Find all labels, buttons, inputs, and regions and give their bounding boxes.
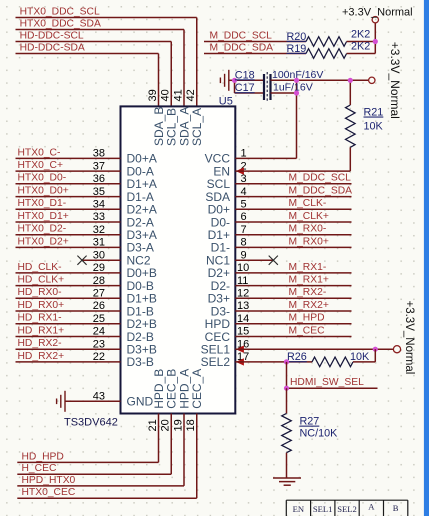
svg-text:R26: R26 <box>287 351 307 363</box>
svg-text:R21: R21 <box>364 107 384 119</box>
pin name D3-B <box>127 355 154 369</box>
net label HTX0_D0+ <box>18 186 69 197</box>
pin number 5 <box>241 199 247 211</box>
pin number 37 <box>93 160 105 172</box>
wire M_DDC_SDA pin 4 <box>235 196 351 198</box>
resistor R20 <box>287 29 376 47</box>
svg-text:GND: GND <box>127 395 154 409</box>
svg-text:NC/10K: NC/10K <box>300 428 339 440</box>
svg-text:HD_RX1-: HD_RX1- <box>18 313 62 324</box>
resistor R27 <box>282 388 338 453</box>
wire SEL2 pin 17 <box>235 361 286 363</box>
wire cap left C17 <box>235 80 265 93</box>
svg-text:M_DDC_SCL: M_DDC_SCL <box>289 173 352 184</box>
wire M_RX0+ pin 8 <box>235 246 351 248</box>
pin number 33 <box>93 211 105 223</box>
net label M_HPD <box>289 313 325 324</box>
wire HD_HPD to pin 21 <box>17 414 158 463</box>
op-amp U5 TS3DV642 chip body <box>121 106 236 413</box>
svg-text:HTX0_C+: HTX0_C+ <box>18 160 64 171</box>
wire caps to +3.3V rail <box>271 80 369 93</box>
pin number 15 <box>237 326 249 338</box>
net label HD-DDC-SCL <box>20 30 84 41</box>
net label HD_RX0- <box>18 287 62 298</box>
svg-text:19: 19 <box>172 419 184 431</box>
pin name SCL_B <box>165 108 179 146</box>
pin name SEL2 <box>201 355 231 369</box>
net label HD_RX1+ <box>18 325 65 336</box>
pin name D3+A <box>127 228 157 242</box>
net label HD_CLK- <box>18 262 62 273</box>
net label H_CEC <box>22 463 57 474</box>
svg-text:22: 22 <box>93 351 105 363</box>
svg-text:HTX0_D1-: HTX0_D1- <box>18 198 67 209</box>
pin name D2-B <box>127 330 154 344</box>
pin name SCL_A <box>190 108 204 146</box>
svg-text:HD_RX2-: HD_RX2- <box>18 338 62 349</box>
pin number 22 <box>93 351 105 363</box>
svg-text:10K: 10K <box>350 351 370 363</box>
power port +3.3V_Normal top <box>342 7 413 23</box>
pin number 39 <box>147 89 159 101</box>
window edge blue bar <box>424 0 429 516</box>
net label HD-DDC-SDA <box>20 42 85 53</box>
wire M_CEC pin 15 <box>235 336 351 338</box>
svg-text:HD-DDC-SDA: HD-DDC-SDA <box>20 42 85 53</box>
wire pin 43 to ground <box>65 400 121 402</box>
pin name EN <box>213 164 230 178</box>
wire M_RX1- pin 10 <box>235 272 351 274</box>
svg-text:HD_RX0-: HD_RX0- <box>18 287 62 298</box>
svg-text:U5: U5 <box>219 95 233 107</box>
pin name D2+B <box>127 317 157 331</box>
wire HTX0_D0+ to pin 35 <box>16 196 121 198</box>
net label M_CLK+ <box>289 211 329 222</box>
svg-text:M_RX2-: M_RX2- <box>289 287 327 298</box>
pin number 42 <box>185 89 197 101</box>
input arrow SEL1 pin 16 <box>236 346 244 353</box>
net label M_RX1- <box>289 262 327 273</box>
pin number 40 <box>160 89 172 101</box>
svg-text:SEL2: SEL2 <box>337 504 357 514</box>
svg-text:M_DDC_SDA: M_DDC_SDA <box>289 186 353 197</box>
svg-text:41: 41 <box>172 89 184 101</box>
wire HD_RX0+ to pin 26 <box>16 310 121 312</box>
junction SEL node <box>373 347 378 352</box>
vertical net name +3.3V_Normal right top <box>388 42 402 119</box>
resistor R19 <box>287 41 376 59</box>
svg-text:SEL2: SEL2 <box>201 355 231 369</box>
wire HTX0_D0- to pin 36 <box>16 183 121 185</box>
wire HTX0_DDC_SCL <box>16 18 197 107</box>
pin number 25 <box>93 313 105 325</box>
wire cap left C18 <box>235 79 265 81</box>
input arrow EN pin 2 <box>236 167 244 174</box>
svg-text:M_RX2+: M_RX2+ <box>289 300 329 311</box>
pin number 13 <box>237 300 249 312</box>
svg-text:38: 38 <box>93 148 105 160</box>
pin number 8 <box>241 237 247 249</box>
net label HDMI_SW_SEL <box>290 377 364 388</box>
pin name SEL1 <box>201 343 231 357</box>
wire M_CLK- pin 5 <box>235 208 351 210</box>
svg-text:A: A <box>368 502 375 512</box>
pin name SDA_B <box>152 107 166 146</box>
net label HTX0_C- <box>18 147 61 158</box>
wire VCC pin 1 to +3.3V rail <box>235 80 296 158</box>
value TS3DV642 <box>64 417 118 429</box>
pin name CEC_B <box>165 369 179 409</box>
net label HTX0_D2- <box>18 224 67 235</box>
wire HTX0_C+ to pin 37 <box>16 170 121 172</box>
pin number 3 <box>241 173 247 185</box>
net label M_RX2+ <box>289 300 329 311</box>
net label HTX0_CEC <box>22 487 76 498</box>
svg-text:HTX0_DDC_SCL: HTX0_DDC_SCL <box>20 6 100 17</box>
svg-text:29: 29 <box>93 262 105 274</box>
wire HD-DDC-SDA <box>16 54 159 107</box>
svg-text:30: 30 <box>93 249 105 261</box>
svg-text:D3-B: D3-B <box>127 355 154 369</box>
svg-text:HTX0_DDC_SDA: HTX0_DDC_SDA <box>20 18 101 29</box>
svg-text:+3.3V_Normal: +3.3V_Normal <box>388 42 402 119</box>
pin name D2-A <box>127 215 154 229</box>
net label HPD_HTX0 <box>22 475 76 486</box>
junction gnd-caps <box>232 78 237 83</box>
wire H_CEC to pin 20 <box>17 414 171 475</box>
svg-text:21: 21 <box>147 419 159 431</box>
pin name D0+B <box>127 266 157 280</box>
pin number 43 <box>93 391 105 403</box>
no-connect X pin 30 <box>77 256 86 265</box>
svg-text:+3.3V_Normal: +3.3V_Normal <box>342 7 413 19</box>
svg-text:HPD_HTX0: HPD_HTX0 <box>22 475 76 486</box>
pin number 7 <box>241 224 247 236</box>
svg-text:HD_RX2+: HD_RX2+ <box>18 351 65 362</box>
pin number 4 <box>241 186 247 198</box>
svg-text:HD_RX1+: HD_RX1+ <box>18 325 65 336</box>
net label M_CLK- <box>289 198 327 209</box>
pin number 12 <box>237 288 249 300</box>
pin 30 NC stub <box>83 259 121 261</box>
capacitor C18 <box>235 69 324 102</box>
wire HTX0_CEC to pin 18 <box>17 414 196 499</box>
pin name D0-A <box>127 164 154 178</box>
pin number 41 <box>172 89 184 101</box>
pin name D3+ <box>208 292 230 306</box>
pin name D3+B <box>127 343 157 357</box>
svg-text:35: 35 <box>93 186 105 198</box>
pin number 32 <box>93 224 105 236</box>
net label HD_CLK+ <box>18 275 65 286</box>
svg-text:HD_CLK+: HD_CLK+ <box>18 275 65 286</box>
net label HTX0_D1+ <box>18 211 69 222</box>
resistor R26 <box>287 349 376 367</box>
pin name D2- <box>211 279 230 293</box>
pin number 29 <box>93 262 105 274</box>
wire HTX0_DDC_SDA <box>16 30 185 107</box>
net label HTX0_D0- <box>18 173 67 184</box>
junction HDMI_SW_SEL <box>284 386 289 391</box>
pin name HPD <box>205 317 231 331</box>
pin name HPD_A <box>177 369 191 409</box>
pin name D3-A <box>127 241 154 255</box>
pin number 1 <box>241 148 247 160</box>
ground at caps <box>220 70 234 91</box>
svg-text:SEL1: SEL1 <box>313 504 333 514</box>
svg-text:M_RX0-: M_RX0- <box>289 224 327 235</box>
net label M_RX0+ <box>289 236 329 247</box>
pin number 27 <box>93 288 105 300</box>
pin name HPD_B <box>152 369 166 409</box>
svg-text:R27: R27 <box>300 416 320 428</box>
svg-text:31: 31 <box>93 237 105 249</box>
pin number 6 <box>241 211 247 223</box>
net label HD_RX2+ <box>18 351 65 362</box>
pin number 2 <box>241 160 247 172</box>
svg-text:M_CEC: M_CEC <box>289 325 326 336</box>
power port +3.3V_Normal right <box>393 346 400 353</box>
no-connect X pin 9 <box>269 256 278 265</box>
svg-text:M_CLK-: M_CLK- <box>289 198 327 209</box>
svg-text:H_CEC: H_CEC <box>22 463 57 474</box>
pin name D3- <box>211 304 230 318</box>
pin number 16 <box>237 338 249 350</box>
pin name SDA <box>205 190 230 204</box>
svg-text:CEC_A: CEC_A <box>190 369 204 409</box>
wire M_CLK+ pin 6 <box>235 221 351 223</box>
svg-text:43: 43 <box>93 391 105 403</box>
pin number 35 <box>93 186 105 198</box>
wire HD_RX2+ to pin 22 <box>16 361 121 363</box>
pin name NC1 <box>206 254 230 268</box>
wire M_RX2+ pin 13 <box>235 310 351 312</box>
svg-text:HTX0_D2-: HTX0_D2- <box>18 224 67 235</box>
wire M_RX2- pin 12 <box>235 297 351 299</box>
pin number 21 <box>147 419 159 431</box>
wire +3.3V to pullups <box>374 23 376 54</box>
wire HPD_HTX0 to pin 19 <box>17 414 184 486</box>
pin number 30 <box>93 249 105 261</box>
svg-text:M_RX1+: M_RX1+ <box>289 275 329 286</box>
wire EN pin 2 to R21 <box>235 147 350 171</box>
svg-text:2K2: 2K2 <box>351 29 370 41</box>
junction pullup node <box>373 39 378 44</box>
power port +3.3V_Normal rail <box>369 77 375 83</box>
svg-text:M_CLK+: M_CLK+ <box>289 211 329 222</box>
pin name D2+A <box>127 203 157 217</box>
pin name GND <box>127 395 154 409</box>
pin name D0+ <box>208 203 230 217</box>
pin name D1-B <box>127 304 154 318</box>
svg-text:24: 24 <box>93 326 105 338</box>
svg-text:26: 26 <box>93 300 105 312</box>
svg-text:28: 28 <box>93 275 105 287</box>
vertical net name +3.3V_Normal right lower <box>403 301 415 375</box>
junction rail nodes <box>294 78 353 96</box>
pin name D2+ <box>208 266 230 280</box>
pin number 26 <box>93 300 105 312</box>
pin name VCC <box>205 152 231 166</box>
svg-text:HTX0_C-: HTX0_C- <box>18 147 61 158</box>
svg-text:TS3DV642: TS3DV642 <box>64 417 118 429</box>
wire M_DDC_SCL pin 3 <box>235 183 351 185</box>
net label M_RX2- <box>289 287 327 298</box>
net label HD_HPD <box>22 451 64 462</box>
wire HD_CLK+ to pin 28 <box>16 285 121 287</box>
wire HD_RX1- to pin 25 <box>16 323 121 325</box>
wire SEL2 down <box>286 362 288 388</box>
svg-text:M_RX1-: M_RX1- <box>289 262 327 273</box>
pin name D1- <box>211 241 230 255</box>
svg-text:R19: R19 <box>287 43 307 55</box>
svg-text:M_HPD: M_HPD <box>289 313 325 324</box>
pin name D1+A <box>127 177 157 191</box>
net label HTX0_C+ <box>18 160 64 171</box>
wire R27 to ground <box>286 453 288 478</box>
pin number 10 <box>237 262 249 274</box>
net label M_DDC_SDA <box>210 42 274 53</box>
pin number 24 <box>93 326 105 338</box>
ground pin 43 <box>57 391 65 412</box>
pin number 20 <box>160 419 172 431</box>
wire M_HPD pin 14 <box>235 323 351 325</box>
svg-text:33: 33 <box>93 211 105 223</box>
svg-text:37: 37 <box>93 160 105 172</box>
svg-text:1uF/16V: 1uF/16V <box>273 81 313 93</box>
svg-text:M_DDC_SCL: M_DDC_SCL <box>210 30 273 41</box>
svg-text:HTX0_D0+: HTX0_D0+ <box>18 186 69 197</box>
net label HD_RX2- <box>18 338 62 349</box>
svg-text:32: 32 <box>93 224 105 236</box>
pin name CEC_A <box>190 369 204 409</box>
wire HTX0_C- to pin 38 <box>16 157 121 159</box>
pin number 38 <box>93 148 105 160</box>
wire HTX0_D1- to pin 34 <box>16 208 121 210</box>
pin number 18 <box>185 419 197 431</box>
net label HTX0_DDC_SDA <box>20 18 101 29</box>
svg-text:+3.3V_Normal: +3.3V_Normal <box>403 301 415 375</box>
net label M_CEC <box>289 325 326 336</box>
svg-text:C18: C18 <box>235 69 255 81</box>
svg-text:HD-DDC-SCL: HD-DDC-SCL <box>20 30 84 41</box>
capacitor C17 <box>235 81 313 94</box>
wire HD_RX0- to pin 27 <box>16 297 121 299</box>
pin number 36 <box>93 173 105 185</box>
svg-text:2K2: 2K2 <box>351 41 370 53</box>
pin 9 NC stub <box>235 259 273 261</box>
wire HD-DDC-SCL <box>16 42 172 107</box>
wire HTX0_D2+ to pin 31 <box>16 246 121 248</box>
pin number 34 <box>93 199 105 211</box>
pin number 28 <box>93 275 105 287</box>
wire HTX0_D1+ to pin 33 <box>16 221 121 223</box>
pin number 19 <box>172 419 184 431</box>
wire HD_RX1+ to pin 24 <box>16 336 121 338</box>
pin name D1-A <box>127 190 154 204</box>
pin number 31 <box>93 237 105 249</box>
svg-text:18: 18 <box>185 419 197 431</box>
net label M_RX1+ <box>289 275 329 286</box>
pin name SDA_A <box>177 107 191 146</box>
svg-text:HTX0_D2+: HTX0_D2+ <box>18 236 69 247</box>
pin number 14 <box>237 313 249 325</box>
pin name NC2 <box>127 254 151 268</box>
pin name SCL <box>207 177 231 191</box>
svg-text:C17: C17 <box>235 82 255 94</box>
net label HTX0_DDC_SCL <box>20 6 100 17</box>
wire HDMI_SW_SEL <box>287 387 378 389</box>
pin name D1+ <box>208 228 230 242</box>
net label HTX0_D1- <box>18 198 67 209</box>
pin number 9 <box>241 249 247 261</box>
net label HTX0_D2+ <box>18 236 69 247</box>
wire HD_RX2- to pin 23 <box>16 348 121 350</box>
svg-text:42: 42 <box>185 89 197 101</box>
net label HD_RX1- <box>18 313 62 324</box>
pin name D0-B <box>127 279 154 293</box>
pin name CEC <box>205 330 231 344</box>
pin name D0- <box>211 215 230 229</box>
svg-text:20: 20 <box>160 419 172 431</box>
wire HTX0_D2- to pin 32 <box>16 234 121 236</box>
pin name D1+B <box>127 292 157 306</box>
wire M_RX0- pin 7 <box>235 234 351 236</box>
net label M_DDC_SCL <box>210 30 273 41</box>
svg-text:HTX0_D1+: HTX0_D1+ <box>18 211 69 222</box>
net label M_RX0- <box>289 224 327 235</box>
net label HD_RX0+ <box>18 300 65 311</box>
pin number 23 <box>93 338 105 350</box>
svg-text:25: 25 <box>93 313 105 325</box>
pin number 11 <box>237 275 248 287</box>
wire M_RX1+ pin 11 <box>235 285 351 287</box>
net label M_DDC_SDA <box>289 186 353 197</box>
resistor R21 <box>346 80 384 147</box>
svg-text:B: B <box>393 503 399 513</box>
truth table header <box>286 500 408 516</box>
svg-text:M_DDC_SDA: M_DDC_SDA <box>210 42 274 53</box>
svg-text:HTX0_CEC: HTX0_CEC <box>22 487 76 498</box>
svg-text:SCL_A: SCL_A <box>190 108 204 146</box>
svg-text:EN: EN <box>293 504 305 514</box>
wire HD_CLK- to pin 29 <box>16 272 121 274</box>
designator U5 <box>219 95 233 107</box>
svg-text:HD_CLK-: HD_CLK- <box>18 262 62 273</box>
svg-text:39: 39 <box>147 89 159 101</box>
pin number 17 <box>237 351 249 363</box>
svg-text:36: 36 <box>93 173 105 185</box>
svg-text:10K: 10K <box>364 121 384 133</box>
wire M_DDC_SCL pullup <box>204 41 306 43</box>
input arrow SEL2 pin 17 <box>236 358 244 365</box>
ground R27 <box>273 478 301 485</box>
svg-text:40: 40 <box>160 89 172 101</box>
net label M_DDC_SCL <box>289 173 352 184</box>
svg-text:HD_RX0+: HD_RX0+ <box>18 300 65 311</box>
svg-text:HTX0_D0-: HTX0_D0- <box>18 173 67 184</box>
svg-text:R20: R20 <box>287 31 307 43</box>
svg-text:34: 34 <box>93 199 105 211</box>
pin name D0+A <box>127 152 157 166</box>
svg-text:HDMI_SW_SEL: HDMI_SW_SEL <box>290 377 364 388</box>
svg-text:23: 23 <box>93 338 105 350</box>
wire M_DDC_SDA pullup <box>204 53 306 55</box>
svg-text:HD_HPD: HD_HPD <box>22 451 64 462</box>
svg-text:27: 27 <box>93 288 105 300</box>
junction SEL2 node <box>284 359 289 364</box>
svg-text:M_RX0+: M_RX0+ <box>289 236 329 247</box>
